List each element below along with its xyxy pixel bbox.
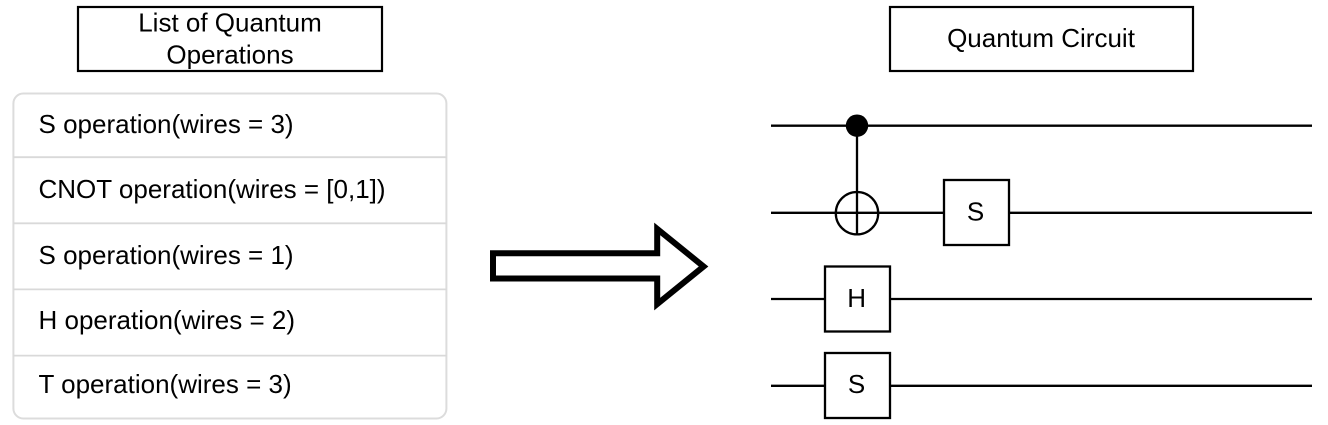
block arrow bbox=[493, 229, 704, 304]
wire q0 bbox=[771, 125, 1312, 127]
title box: Quantum Circuit bbox=[890, 7, 1193, 71]
svg-text:Quantum Circuit: Quantum Circuit bbox=[947, 23, 1136, 53]
separator 1 bbox=[13, 156, 446, 158]
gate S on q1 bbox=[944, 180, 1009, 245]
CNOT vertical link bbox=[856, 126, 858, 235]
gate H on q2 bbox=[825, 267, 890, 332]
svg-text:T operation(wires = 3): T operation(wires = 3) bbox=[39, 369, 292, 399]
operations list panel bbox=[13, 94, 446, 419]
svg-text:S: S bbox=[967, 196, 984, 226]
svg-text:CNOT operation(wires = [0,1]): CNOT operation(wires = [0,1]) bbox=[39, 174, 386, 204]
CNOT control dot bbox=[846, 114, 868, 136]
gate S on q3 bbox=[825, 353, 890, 418]
title box: List of Quantum Operations bbox=[78, 7, 382, 71]
wire q1 bbox=[771, 212, 1312, 214]
svg-text:S: S bbox=[848, 369, 865, 399]
svg-text:S operation(wires = 1): S operation(wires = 1) bbox=[39, 240, 294, 270]
svg-text:S operation(wires = 3): S operation(wires = 3) bbox=[39, 109, 294, 139]
wire q3 bbox=[771, 385, 1312, 387]
separator 2 bbox=[13, 222, 446, 224]
svg-text:H operation(wires = 2): H operation(wires = 2) bbox=[39, 305, 296, 335]
svg-text:Operations: Operations bbox=[166, 40, 293, 70]
CNOT target bbox=[836, 192, 878, 234]
separator 4 bbox=[13, 355, 446, 357]
quantum circuit bbox=[771, 114, 1312, 418]
wire q2 bbox=[771, 298, 1312, 300]
svg-text:List of Quantum: List of Quantum bbox=[138, 8, 322, 38]
svg-text:H: H bbox=[847, 283, 866, 313]
separator 3 bbox=[13, 288, 446, 290]
